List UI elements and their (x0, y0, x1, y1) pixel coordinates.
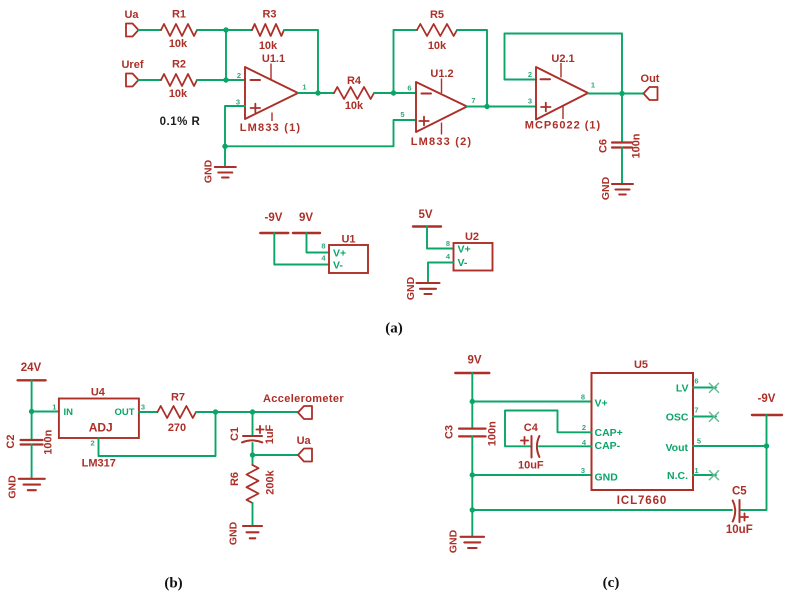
supply 24V rail (18, 362, 46, 380)
svg-text:8: 8 (446, 239, 450, 248)
svg-text:200k: 200k (264, 469, 276, 494)
supply 9V rail part c (455, 355, 489, 374)
capacitor C6 (598, 133, 643, 158)
svg-text:3: 3 (528, 97, 532, 106)
output connector Accelerometer (263, 393, 344, 419)
resistor R7 (158, 392, 197, 435)
pin 6 label U1.2 (407, 84, 411, 93)
svg-text:R5: R5 (430, 9, 444, 21)
wire Vout pin 5 to -9V (693, 445, 767, 447)
wire node B1 to U4 IN (32, 411, 59, 413)
svg-text:Uref: Uref (121, 59, 143, 71)
pin 3 label U1.1 (236, 98, 240, 107)
svg-text:6: 6 (407, 84, 411, 93)
svg-text:U1: U1 (341, 234, 355, 246)
caption (b) (164, 576, 182, 592)
svg-text:R1: R1 (172, 9, 186, 21)
junction node C1n (470, 399, 475, 404)
wire Uref to R2 (139, 79, 162, 81)
power part U2 (454, 231, 493, 271)
capacitor C4 (518, 422, 544, 472)
svg-text:10uF: 10uF (518, 460, 544, 472)
wire ground node A to U1.2 pin 5 (225, 120, 416, 146)
svg-text:10k: 10k (345, 100, 364, 112)
svg-text:5: 5 (697, 437, 701, 446)
pin 1 label U5 (694, 466, 698, 475)
wire node B4 to Ua out (253, 454, 299, 456)
power part U1 (329, 234, 368, 274)
svg-text:C2: C2 (5, 435, 17, 449)
junction U1.2 output node (484, 104, 489, 109)
wire R3 to U1.1 output node (284, 30, 318, 93)
junction node B1 (29, 409, 34, 414)
pin 1 label U4 (52, 403, 56, 412)
svg-text:V-: V- (458, 257, 468, 269)
wire -9V to U1 V- (274, 233, 329, 265)
svg-text:100n: 100n (42, 429, 54, 454)
svg-text:GND: GND (6, 475, 18, 499)
pin 3 label U5 (581, 466, 585, 475)
junction node B4 (250, 452, 255, 457)
output connector Ua (297, 435, 312, 462)
svg-text:LM833 (1): LM833 (1) (240, 122, 302, 134)
svg-text:100n: 100n (631, 133, 643, 158)
junction node Vout (764, 443, 769, 448)
svg-text:1uF: 1uF (264, 424, 276, 444)
pin 5 label U1.2 (400, 110, 404, 119)
svg-text:(a): (a) (385, 321, 403, 337)
svg-text:GND: GND (228, 521, 240, 545)
input connector Ua (124, 9, 139, 37)
wire 24V to node B1 (31, 380, 33, 411)
wire Ua to R1 (139, 29, 162, 31)
svg-text:10k: 10k (169, 38, 188, 50)
junction node B2 (213, 409, 218, 414)
svg-text:4: 4 (321, 254, 326, 263)
wire C1 to node B4 (252, 443, 254, 455)
wire R6 to ground (252, 503, 254, 526)
pin 2 label U4 (91, 439, 95, 448)
svg-text:V-: V- (333, 260, 343, 272)
wire Vout node down to C5 (740, 446, 767, 510)
ground GND under C2 (6, 475, 45, 499)
svg-text:7: 7 (471, 96, 475, 105)
capacitor C1 (229, 424, 276, 444)
svg-text:8: 8 (321, 242, 325, 251)
svg-text:9V: 9V (467, 355, 481, 367)
svg-text:U1.1: U1.1 (262, 53, 285, 65)
wire U1.1 output to R4 (298, 92, 334, 94)
IC U5 ICL7660 (592, 359, 694, 507)
svg-text:(c): (c) (603, 575, 620, 591)
pin 8 label U2 (446, 239, 450, 248)
no-connect mark N.C. (709, 471, 718, 480)
ground GND under R6 (228, 521, 262, 545)
svg-text:4: 4 (446, 252, 451, 261)
svg-text:10k: 10k (259, 40, 278, 52)
wire U4 OUT to R7 (139, 411, 158, 413)
svg-text:LM833 (2): LM833 (2) (411, 136, 473, 148)
svg-text:C3: C3 (443, 425, 455, 439)
junction node N2 (391, 90, 396, 95)
wire node N2 up to R5 left (394, 30, 418, 93)
svg-text:Ua: Ua (124, 9, 139, 21)
supply -9V rail part c (752, 393, 782, 415)
junction node N1 top (223, 27, 228, 32)
svg-text:OUT: OUT (114, 407, 134, 418)
pin 8 label U5 (581, 393, 585, 402)
wire R1 to node N1 to R3 (197, 29, 252, 31)
pin 2 label U5 (582, 423, 586, 432)
wire node B4 to R6 (252, 455, 254, 465)
svg-text:10k: 10k (169, 88, 188, 100)
svg-text:24V: 24V (21, 362, 42, 374)
pin 5 label U5 (697, 437, 701, 446)
wire LV pin 6 stub (693, 387, 716, 389)
svg-text:N.C.: N.C. (667, 470, 688, 482)
output connector Out (641, 73, 660, 100)
svg-text:9V: 9V (299, 212, 313, 224)
svg-text:LV: LV (676, 383, 689, 395)
no-connect mark OSC (709, 412, 718, 421)
pin 7 label U5 (694, 406, 698, 415)
op-amp U1.2 LM833 (2) (411, 68, 473, 148)
svg-text:(b): (b) (164, 576, 182, 592)
wire 5V to U2 V+ (427, 227, 454, 249)
svg-text:100n: 100n (487, 421, 499, 446)
svg-text:10k: 10k (428, 40, 447, 52)
capacitor C2 (5, 429, 54, 454)
svg-text:Vout: Vout (665, 442, 688, 454)
wire U1.2 output to U2.1 pin 3 (467, 106, 536, 108)
svg-text:GND: GND (595, 471, 619, 483)
wire node N1 vertical (225, 30, 227, 80)
svg-text:Ua: Ua (297, 435, 312, 447)
svg-text:0.1% R: 0.1% R (160, 116, 201, 128)
wire C6 to ground (621, 148, 623, 184)
no-connect mark LV (709, 383, 718, 392)
wire output node to C6 (621, 94, 623, 143)
svg-text:2: 2 (237, 71, 241, 80)
svg-text:6: 6 (694, 377, 698, 386)
svg-text:2: 2 (528, 70, 532, 79)
svg-text:OSC: OSC (666, 411, 689, 423)
pin 4 label U1 (321, 254, 326, 263)
svg-text:10uF: 10uF (726, 524, 753, 536)
svg-text:ADJ: ADJ (89, 421, 113, 435)
svg-text:GND: GND (600, 176, 612, 200)
svg-text:C4: C4 (524, 422, 539, 434)
svg-text:C1: C1 (229, 427, 241, 441)
svg-text:2: 2 (582, 423, 586, 432)
svg-text:U2: U2 (465, 231, 479, 243)
wire U2 V- to ground (428, 263, 454, 284)
input connector Uref (121, 59, 143, 87)
wire -9V rail down (766, 415, 768, 446)
svg-text:7: 7 (694, 406, 698, 415)
capacitor C3 (443, 421, 498, 446)
wire N.C. pin 1 stub (693, 474, 716, 476)
svg-text:3: 3 (581, 466, 585, 475)
op-amp U2.1 MCP6022 (1) (525, 53, 601, 132)
pin 3 label U2.1 (528, 97, 532, 106)
resistor R2 (161, 59, 197, 101)
supply 9V rail (293, 212, 320, 233)
wire node B1 to C2 (31, 412, 33, 440)
pin 2 label U1.1 (237, 71, 241, 80)
resistor R1 (161, 9, 197, 51)
wire R5 right to U1.2 output node (457, 30, 487, 107)
svg-text:1: 1 (302, 83, 306, 92)
wire CAP+ pin 2 to C4 (505, 411, 592, 447)
wire R7 to Accelerometer (196, 411, 298, 413)
svg-text:V+: V+ (458, 244, 471, 256)
pin 1 label U1.1 (302, 83, 306, 92)
pin 3 label U4 (141, 403, 145, 412)
svg-text:2: 2 (91, 439, 95, 448)
svg-text:Out: Out (641, 73, 660, 85)
junction U1.1 output node (315, 90, 320, 95)
svg-text:GND: GND (202, 159, 214, 183)
wire U2.1 output to Out (588, 93, 644, 95)
op-amp U1.1 LM833 (1) (240, 53, 302, 134)
wire 9V down to C3 (471, 373, 473, 428)
regulator U4 LM317 (59, 387, 139, 470)
svg-text:C5: C5 (732, 486, 747, 498)
svg-text:8: 8 (581, 393, 585, 402)
ground GND part c (447, 529, 484, 553)
junction node C2n (470, 472, 475, 477)
svg-text:5: 5 (400, 110, 404, 119)
svg-text:3: 3 (141, 403, 145, 412)
svg-text:1: 1 (591, 81, 595, 90)
resistor R5 (417, 9, 457, 52)
wire R2 to U1.1 pin 2 (197, 79, 245, 81)
wire OSC pin 7 stub (693, 416, 716, 418)
wire U1.1 pin 3 to ground node (225, 106, 245, 146)
pin 2 label U2.1 (528, 70, 532, 79)
ground GND under U2 (405, 276, 439, 300)
svg-text:R7: R7 (171, 392, 185, 404)
svg-text:R6: R6 (229, 472, 241, 486)
svg-text:CAP+: CAP+ (595, 427, 623, 439)
pin 4 label U5 (582, 438, 587, 447)
junction output node (619, 91, 624, 96)
pin 7 label U1.2 (471, 96, 475, 105)
svg-text:U2.1: U2.1 (551, 53, 574, 65)
svg-text:LM317: LM317 (82, 458, 116, 470)
wire C4 to CAP- pin 4 (539, 445, 592, 447)
svg-text:IN: IN (64, 407, 74, 418)
junction node N1 bottom (223, 77, 228, 82)
junction node C3n (470, 507, 475, 512)
pin 4 label U2 (446, 252, 451, 261)
resistor R4 (334, 75, 374, 112)
wire U2.1 feedback loop (505, 34, 623, 94)
svg-text:U5: U5 (634, 359, 648, 371)
svg-text:U4: U4 (91, 387, 106, 399)
junction node B3 (250, 409, 255, 414)
note 0.1% R (160, 116, 201, 128)
wire R4 to U1.2 pin 6 (374, 92, 416, 94)
capacitor C5 (726, 486, 753, 536)
svg-text:GND: GND (405, 276, 417, 300)
pin 8 label U1 (321, 242, 325, 251)
wire GND pin 3 (472, 474, 591, 476)
pin 6 label U5 (694, 377, 698, 386)
svg-text:270: 270 (168, 422, 186, 434)
svg-text:R2: R2 (172, 59, 186, 71)
svg-text:1: 1 (694, 466, 698, 475)
supply 5V rail (413, 209, 441, 227)
svg-text:GND: GND (447, 529, 459, 553)
svg-text:-9V: -9V (758, 393, 776, 405)
caption (c) (603, 575, 620, 591)
svg-text:V+: V+ (595, 398, 608, 410)
svg-text:R4: R4 (347, 75, 362, 87)
svg-text:1: 1 (52, 403, 56, 412)
wire ground node A stub (224, 146, 226, 167)
svg-text:R3: R3 (262, 9, 276, 21)
pin 1 label U2.1 (591, 81, 595, 90)
wire 9V to U1 V+ (307, 233, 330, 253)
wire node B3 to C1 (252, 412, 254, 436)
resistor R3 (252, 9, 284, 53)
svg-text:Accelerometer: Accelerometer (263, 393, 344, 405)
caption (a) (385, 321, 403, 337)
wire V+ pin 8 (472, 401, 591, 403)
svg-text:5V: 5V (418, 209, 432, 221)
svg-text:V+: V+ (333, 248, 346, 260)
svg-text:U1.2: U1.2 (430, 68, 453, 80)
wire C3 down to ground (471, 436, 473, 536)
ground GND under U1.1 (202, 159, 236, 183)
svg-text:ICL7660: ICL7660 (617, 495, 667, 507)
resistor R6 (229, 465, 276, 503)
supply -9V rail (260, 212, 288, 233)
svg-text:MCP6022 (1): MCP6022 (1) (525, 120, 601, 132)
svg-text:CAP-: CAP- (595, 440, 621, 452)
wire bottom node to C5 (472, 509, 732, 511)
wire C2 to ground (31, 445, 33, 479)
svg-text:-9V: -9V (265, 212, 283, 224)
junction ground node A (222, 144, 227, 149)
svg-text:C6: C6 (598, 139, 610, 153)
wire U4 ADJ to node B2 (99, 412, 216, 456)
ground GND under C6 (600, 176, 633, 200)
